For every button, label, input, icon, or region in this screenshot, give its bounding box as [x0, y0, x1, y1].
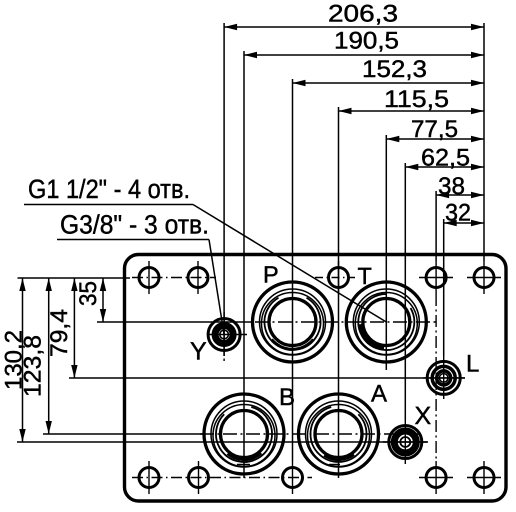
svg-text:62,5: 62,5	[421, 145, 470, 172]
svg-text:123,8: 123,8	[20, 335, 47, 397]
port B	[204, 394, 284, 474]
extension line L column	[443, 219, 445, 356]
centerline dash below port A	[329, 464, 340, 466]
svg-text:B: B	[279, 384, 295, 411]
dimension 206,3	[224, 1, 484, 31]
dimension 130,2	[1, 278, 28, 442]
extension line P column	[292, 79, 294, 461]
dimension 32	[444, 200, 484, 227]
port X	[383, 420, 428, 464]
extension line T column	[385, 135, 387, 370]
centerline B-A row	[200, 433, 423, 435]
svg-text:G3/8" - 3 отв.: G3/8" - 3 отв.	[60, 210, 209, 240]
svg-text:G1 1/2" - 4 отв.: G1 1/2" - 4 отв.	[28, 174, 190, 204]
svg-text:152,3: 152,3	[362, 56, 427, 83]
svg-text:35: 35	[75, 281, 102, 306]
mounting hole top-middle	[315, 261, 355, 294]
port Y	[207, 312, 247, 361]
extension line B column	[243, 51, 245, 478]
dimension 38	[436, 173, 484, 200]
mounting hole bottom-1	[139, 461, 159, 494]
dimension 77,5	[386, 116, 484, 143]
svg-text:A: A	[371, 381, 387, 408]
leader to T port	[193, 205, 386, 323]
mounting hole top-right corner	[467, 261, 501, 294]
port A	[299, 394, 379, 474]
dimension 190,5	[244, 28, 484, 59]
centerline right holes column	[435, 294, 437, 461]
svg-text:L: L	[466, 351, 479, 378]
svg-text:190,5: 190,5	[334, 28, 399, 55]
extension line Y column	[223, 23, 225, 356]
dimension 62,5	[405, 145, 484, 172]
svg-text:P: P	[263, 262, 279, 288]
mounting hole top-1	[139, 261, 159, 294]
port T	[346, 282, 426, 362]
centerline dash below port B	[237, 464, 250, 466]
svg-text:115,5: 115,5	[384, 86, 449, 113]
svg-text:Y: Y	[190, 338, 207, 366]
extension line A column	[338, 107, 340, 478]
centerline through top-left holes	[132, 277, 216, 279]
mounting hole bottom-right corner	[467, 461, 501, 494]
extension line X column	[404, 163, 406, 420]
dimension 79,4	[46, 278, 78, 378]
svg-text:38: 38	[438, 173, 465, 200]
dimension 123,8	[20, 278, 52, 434]
svg-text:79,4: 79,4	[46, 309, 73, 357]
svg-text:77,5: 77,5	[411, 116, 458, 143]
svg-text:X: X	[415, 402, 432, 430]
extension line P-T row (35)	[97, 321, 251, 323]
dimension 152,3	[293, 56, 485, 86]
svg-text:32: 32	[445, 200, 471, 227]
mounting hole bottom-right inner	[419, 461, 453, 494]
dimension 115,5	[339, 86, 485, 114]
label G3/8" - 3 otv	[57, 210, 209, 240]
mounting hole bottom-middle	[283, 461, 303, 494]
extension line B-A row (123,8)	[43, 433, 203, 435]
extension line holes-38 column	[435, 191, 437, 261]
mounting hole top-2	[188, 261, 208, 294]
extension line right reference column	[483, 23, 485, 261]
port P	[253, 282, 333, 362]
extension line L row (79,4)	[69, 377, 465, 379]
plate outline	[125, 255, 507, 502]
svg-text:T: T	[358, 263, 372, 289]
extension line X row (130,2)	[17, 441, 427, 443]
svg-text:206,3: 206,3	[328, 1, 398, 28]
label G1 1/2" - 4 otv	[24, 174, 193, 205]
leader to Y port	[209, 240, 224, 335]
centerline through bottom-left holes	[132, 477, 312, 479]
port L	[423, 356, 465, 399]
mounting hole bottom-2	[189, 461, 209, 494]
centerline P-T row	[255, 321, 437, 323]
extension line top holes row	[18, 277, 131, 279]
dimension 35	[75, 278, 106, 322]
mounting hole top-right inner	[419, 261, 453, 294]
